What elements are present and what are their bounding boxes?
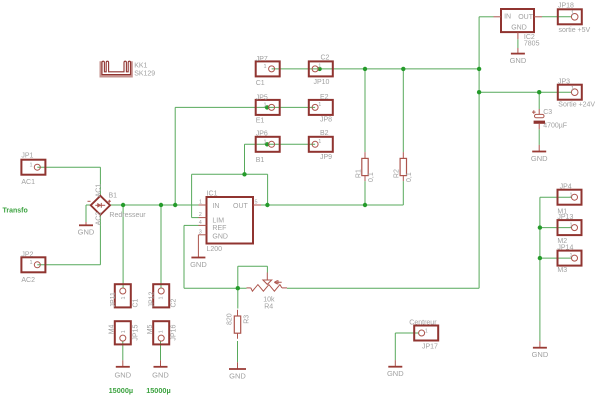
svg-text:1: 1 <box>264 103 267 109</box>
svg-text:OUT: OUT <box>233 203 249 210</box>
svg-text:GND: GND <box>532 350 549 359</box>
svg-text:JP6: JP6 <box>256 131 268 138</box>
svg-text:GND: GND <box>190 260 207 269</box>
svg-text:JP10: JP10 <box>314 79 330 86</box>
svg-text:JP16: JP16 <box>171 325 178 341</box>
svg-text:JP14: JP14 <box>557 244 573 251</box>
svg-text:JP15: JP15 <box>132 325 139 341</box>
svg-text:GND: GND <box>511 25 527 32</box>
svg-text:1: 1 <box>159 330 165 333</box>
svg-text:L200: L200 <box>207 246 223 253</box>
svg-text:2: 2 <box>199 212 202 218</box>
svg-text:JP13: JP13 <box>557 214 573 221</box>
svg-text:JP7: JP7 <box>256 56 268 63</box>
svg-text:1: 1 <box>570 192 573 198</box>
svg-text:sortie +5V: sortie +5V <box>559 27 591 34</box>
svg-text:GND: GND <box>510 56 527 65</box>
svg-text:R3: R3 <box>244 315 251 324</box>
svg-text:R1: R1 <box>355 169 362 178</box>
svg-text:GND: GND <box>78 228 95 237</box>
svg-text:Sortie +24V: Sortie +24V <box>558 101 595 108</box>
svg-text:GND: GND <box>212 234 228 241</box>
svg-text:JP12: JP12 <box>149 291 156 307</box>
svg-text:JP18: JP18 <box>558 3 574 10</box>
svg-text:KK1: KK1 <box>134 62 147 69</box>
svg-text:R4: R4 <box>264 303 273 310</box>
svg-text:1: 1 <box>30 162 33 168</box>
svg-text:JP5: JP5 <box>256 94 268 101</box>
svg-text:C1: C1 <box>256 80 265 87</box>
svg-text:Centreur: Centreur <box>409 319 437 326</box>
svg-text:10k: 10k <box>263 296 275 303</box>
svg-text:B2: B2 <box>320 130 329 137</box>
svg-text:1: 1 <box>318 64 321 70</box>
svg-text:IC1: IC1 <box>207 191 218 198</box>
svg-text:GND: GND <box>387 369 404 378</box>
svg-text:C2: C2 <box>171 298 178 307</box>
svg-text:C3: C3 <box>543 109 552 116</box>
svg-text:M4: M4 <box>109 324 116 334</box>
svg-text:1: 1 <box>199 200 202 206</box>
svg-text:1: 1 <box>30 260 33 266</box>
svg-text:AC1: AC1 <box>96 184 103 198</box>
svg-text:GND: GND <box>229 371 246 380</box>
svg-text:C2: C2 <box>321 54 330 61</box>
svg-text:IN: IN <box>504 14 511 21</box>
svg-text:1: 1 <box>264 139 267 145</box>
svg-text:JP1: JP1 <box>21 153 33 160</box>
svg-text:1: 1 <box>570 223 573 229</box>
svg-text:GND: GND <box>152 370 169 379</box>
svg-text:JP11: JP11 <box>110 292 117 308</box>
svg-text:B1: B1 <box>109 193 118 200</box>
svg-text:1: 1 <box>570 253 573 259</box>
svg-text:M5: M5 <box>147 324 154 334</box>
svg-text:3: 3 <box>199 230 202 236</box>
svg-text:1: 1 <box>121 330 127 333</box>
svg-text:5: 5 <box>255 200 258 206</box>
svg-text:1: 1 <box>571 86 574 92</box>
svg-text:AC2: AC2 <box>96 212 103 226</box>
svg-text:Transfo: Transfo <box>3 208 28 215</box>
svg-text:AC1: AC1 <box>21 179 35 186</box>
svg-text:LIM: LIM <box>212 218 224 225</box>
svg-text:15000µ: 15000µ <box>109 386 134 395</box>
svg-text:Redresseur: Redresseur <box>109 212 146 219</box>
svg-text:OUT: OUT <box>518 14 534 21</box>
svg-text:B1: B1 <box>256 157 265 164</box>
svg-text:JP9: JP9 <box>320 154 332 161</box>
svg-text:GND: GND <box>114 370 131 379</box>
svg-text:JP4: JP4 <box>560 183 572 190</box>
svg-text:1: 1 <box>264 64 267 70</box>
svg-text:R2: R2 <box>394 169 401 178</box>
svg-text:1: 1 <box>159 296 165 299</box>
svg-text:1: 1 <box>425 328 428 334</box>
svg-text:15000µ: 15000µ <box>146 386 171 395</box>
svg-text:E1: E1 <box>256 117 265 124</box>
svg-text:IN: IN <box>212 203 219 210</box>
svg-text:1: 1 <box>318 102 321 108</box>
svg-text:AC2: AC2 <box>21 277 35 284</box>
svg-text:7805: 7805 <box>524 41 540 48</box>
svg-text:4700µF: 4700µF <box>543 123 567 130</box>
svg-text:1: 1 <box>121 296 127 299</box>
svg-text:JP3: JP3 <box>558 78 570 85</box>
svg-text:1: 1 <box>571 11 574 17</box>
svg-text:0,1: 0,1 <box>368 172 375 182</box>
svg-text:E2: E2 <box>320 94 329 101</box>
svg-text:JP2: JP2 <box>21 251 33 258</box>
svg-text:REF: REF <box>212 225 226 232</box>
svg-text:C1: C1 <box>132 298 139 307</box>
svg-text:SK129: SK129 <box>134 70 155 77</box>
svg-text:820: 820 <box>227 313 234 325</box>
svg-text:0,1: 0,1 <box>406 172 413 182</box>
svg-text:1: 1 <box>318 139 321 145</box>
svg-text:M3: M3 <box>557 267 567 274</box>
svg-text:GND: GND <box>531 154 548 163</box>
svg-text:4: 4 <box>199 220 202 226</box>
svg-text:JP8: JP8 <box>320 117 332 124</box>
svg-text:JP17: JP17 <box>422 343 438 350</box>
